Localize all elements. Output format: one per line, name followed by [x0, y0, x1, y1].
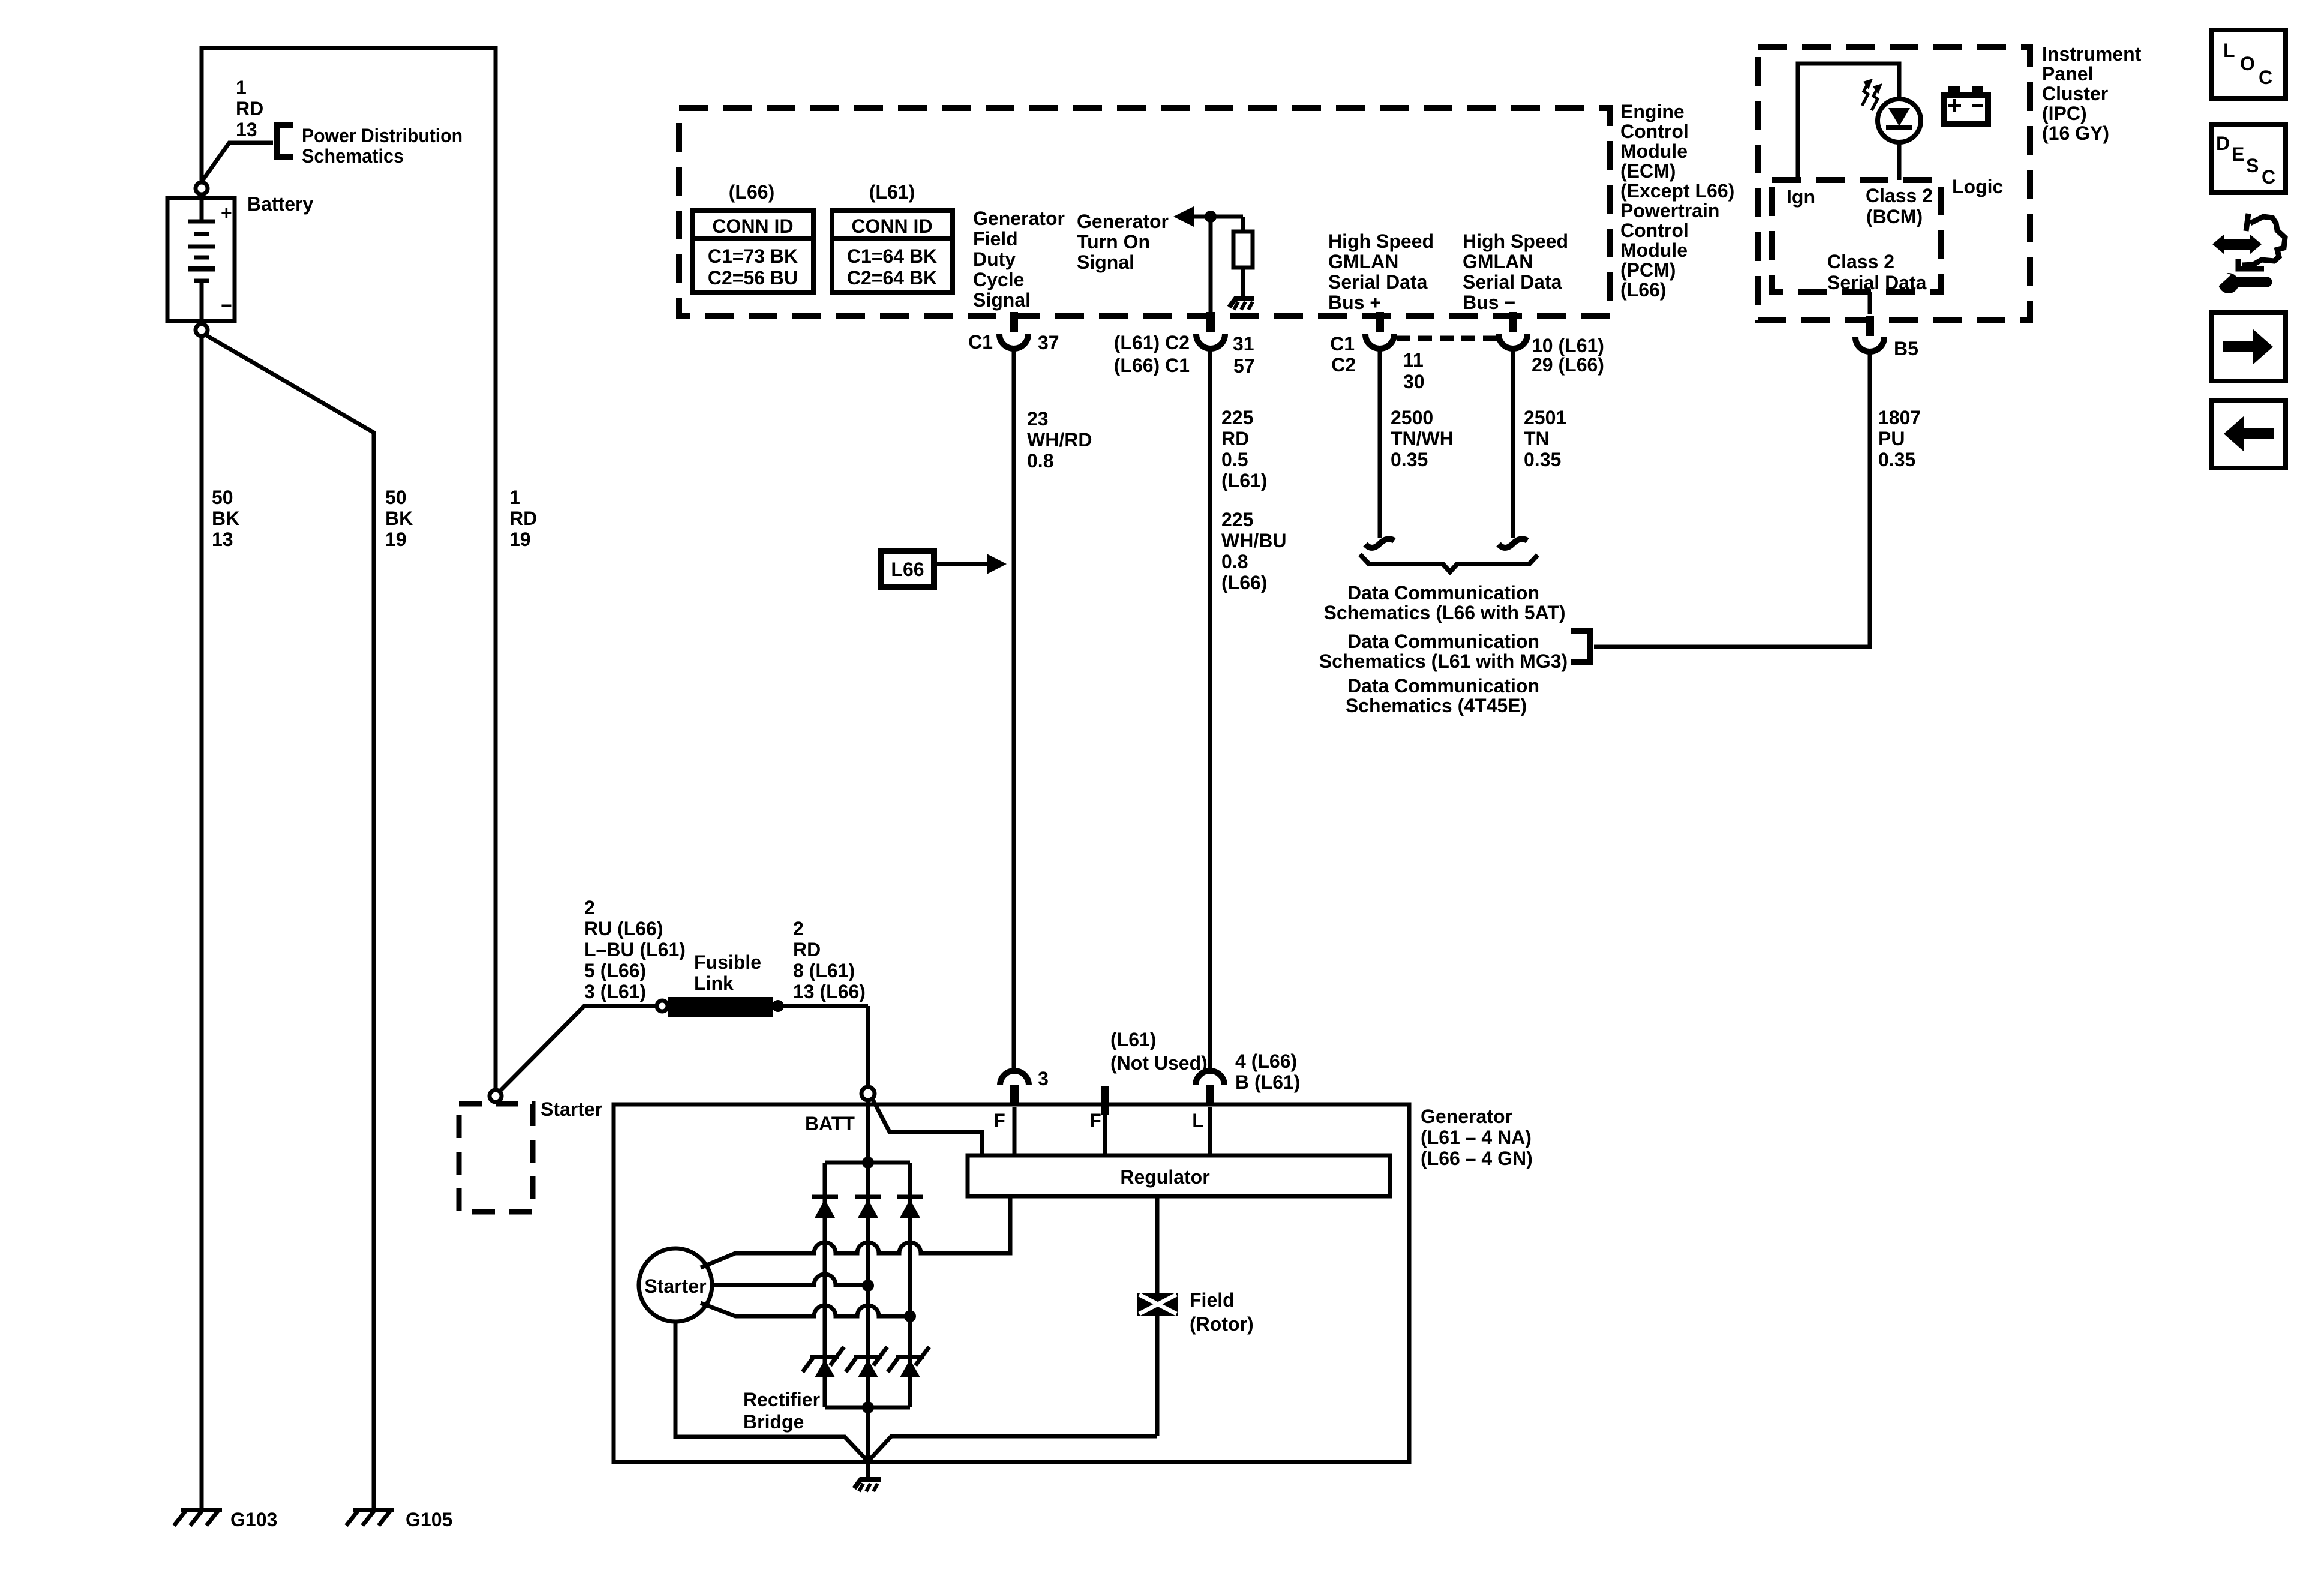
wire: BATT to rectifier bridge center [866, 1101, 870, 1407]
svg-text:19: 19 [385, 529, 407, 550]
sidebar icon: vehicle diagnostic (arrow + car + wrench) [2212, 214, 2285, 293]
svg-text:CONN ID: CONN ID [851, 215, 932, 237]
svg-text:Generator: Generator [1421, 1106, 1512, 1127]
svg-text:F: F [993, 1110, 1005, 1131]
sidebar icon: LOC box [2211, 30, 2286, 98]
stator phase wire B (middle) with hump [712, 1274, 868, 1285]
svg-text:C1: C1 [1330, 333, 1355, 355]
svg-text:(L66): (L66) [1620, 279, 1666, 301]
resistor R (internal) [1233, 232, 1253, 268]
svg-text:RU (L66): RU (L66) [584, 918, 663, 939]
bridge left leg [823, 1163, 827, 1407]
battery B+ tap wire to Power Distribution [203, 143, 273, 180]
svg-text:L66: L66 [891, 559, 924, 580]
svg-text:WH/RD: WH/RD [1027, 429, 1092, 451]
ground G103 [174, 1509, 277, 1530]
svg-text:GMLAN: GMLAN [1463, 251, 1533, 272]
stator (starter) winding circle [639, 1248, 712, 1322]
svg-text:(L61): (L61) [1221, 470, 1267, 491]
svg-text:Link: Link [694, 972, 734, 994]
svg-text:Instrument: Instrument [2042, 43, 2142, 65]
svg-text:C: C [2259, 67, 2272, 88]
node: phase C junction [904, 1310, 916, 1322]
svg-text:Schematics (L66 with 5AT): Schematics (L66 with 5AT) [1323, 602, 1565, 623]
connector table CONN ID (L61) [832, 211, 953, 292]
svg-text:(Rotor): (Rotor) [1190, 1313, 1254, 1335]
svg-text:Data Communication: Data Communication [1347, 631, 1539, 652]
wire: starter to fusible link [500, 1006, 658, 1091]
ground: generator case ground [854, 1479, 881, 1491]
svg-text:Generator: Generator [973, 208, 1065, 229]
svg-text:(ECM): (ECM) [1620, 160, 1676, 182]
svg-text:Cycle: Cycle [973, 269, 1024, 290]
wire continuation hook (bus +) [1365, 539, 1394, 548]
wire: battery feed rectangle top (1 RD circuit) [202, 48, 496, 1089]
svg-text:30: 30 [1403, 371, 1425, 392]
svg-text:RD: RD [1221, 428, 1249, 449]
svg-text:(Not Used): (Not Used) [1110, 1052, 1208, 1074]
pin C1/C2: GMLAN bus + [1330, 312, 1425, 392]
ground G105 [346, 1509, 452, 1530]
svg-text:Schematics (L61 with MG3): Schematics (L61 with MG3) [1319, 650, 1568, 672]
diode D1 [812, 1197, 838, 1218]
wire 225 RD / WH-BU (generator turn on signal) [1208, 349, 1212, 1070]
pin B5: IPC class 2 serial data [1855, 316, 1918, 359]
svg-text:1: 1 [236, 77, 247, 98]
generator box [614, 1104, 1409, 1462]
node: battery positive terminal [196, 182, 208, 194]
wire: LED cathode to BCM logic [1897, 142, 1902, 180]
ECM/PCM dashed module box [679, 108, 1610, 316]
wire: stator common to ground point [675, 1322, 868, 1461]
svg-text:Duty: Duty [973, 248, 1016, 270]
svg-text:+: + [221, 202, 232, 224]
svg-text:0.5: 0.5 [1221, 449, 1248, 470]
wire: L pin to regulator [1208, 1107, 1212, 1155]
svg-text:Data Communication: Data Communication [1347, 675, 1539, 697]
svg-text:(L61): (L61) [869, 181, 915, 203]
connector boundary dashes between GMLAN pins [1397, 336, 1499, 341]
pin F (3): generator field [993, 1068, 1049, 1131]
svg-text:F: F [1089, 1110, 1101, 1131]
svg-text:31: 31 [1233, 333, 1254, 355]
svg-text:(PCM): (PCM) [1620, 259, 1676, 281]
svg-text:C: C [2262, 166, 2275, 188]
svg-text:Battery: Battery [247, 193, 313, 215]
wire continuation hook (bus -) [1499, 539, 1527, 548]
pin C2-31 / C1-57: ECM generator turn on [1114, 312, 1255, 377]
svg-text:0.35: 0.35 [1878, 449, 1915, 470]
connector table CONN ID (L66) [693, 211, 813, 292]
svg-text:13: 13 [212, 529, 233, 550]
BCM logic dashed box [1772, 180, 1941, 292]
pin 10/29: GMLAN bus - [1499, 312, 1604, 376]
svg-text:0.35: 0.35 [1391, 449, 1428, 470]
svg-text:High Speed: High Speed [1463, 230, 1568, 252]
svg-text:Turn On: Turn On [1077, 231, 1150, 253]
svg-text:(IPC): (IPC) [2042, 103, 2087, 124]
svg-text:L: L [2223, 40, 2235, 61]
svg-text:(BCM): (BCM) [1866, 206, 1923, 227]
svg-text:TN/WH: TN/WH [1391, 428, 1454, 449]
svg-text:Serial Data: Serial Data [1328, 271, 1428, 293]
wire: BATT branch to regulator [873, 1100, 982, 1155]
indicator LED DS (charge lamp) [1878, 99, 1921, 142]
svg-text:Regulator: Regulator [1120, 1166, 1209, 1188]
wire 1807 PU 0.35 (class 2 serial data) [1594, 352, 1870, 647]
svg-text:(L66) C1: (L66) C1 [1114, 355, 1190, 376]
svg-text:0.8: 0.8 [1027, 450, 1053, 472]
arrow: generator turn on signal [1173, 206, 1194, 227]
wire: F2 pin to regulator [1103, 1107, 1107, 1155]
brace: data communication schematics [1360, 554, 1538, 572]
avalanche diode D5 [846, 1347, 887, 1377]
svg-text:B (L61): B (L61) [1235, 1071, 1300, 1093]
svg-text:Signal: Signal [1077, 251, 1134, 273]
svg-text:GMLAN: GMLAN [1328, 251, 1398, 272]
svg-text:BK: BK [212, 508, 239, 529]
svg-text:10 (L61): 10 (L61) [1532, 335, 1604, 356]
diode D2 [855, 1197, 881, 1218]
svg-text:Class 2: Class 2 [1866, 185, 1933, 206]
svg-text:PU: PU [1878, 428, 1905, 449]
svg-text:Engine: Engine [1620, 101, 1685, 122]
svg-text:BK: BK [385, 508, 413, 529]
wire: IPC internal lamp branch [1798, 64, 1899, 179]
wire: turn-on signal down from junction [1209, 217, 1213, 313]
wire: 50 BK 13 ground wire to G103 [200, 337, 204, 1510]
svg-text:Module: Module [1620, 140, 1688, 162]
wire 2501 TN 0.35 (GMLAN bus -) [1511, 349, 1515, 538]
wire: field return to ground point [868, 1436, 1157, 1461]
svg-text:Cluster: Cluster [2042, 83, 2108, 104]
svg-text:2: 2 [793, 918, 804, 939]
svg-text:(L61): (L61) [1110, 1029, 1156, 1050]
svg-text:8 (L61): 8 (L61) [793, 960, 855, 981]
svg-text:C2=56 BU: C2=56 BU [708, 267, 798, 289]
sidebar icon: DESC box [2211, 124, 2286, 193]
battery icon (IPC symbol) [1944, 86, 1988, 124]
svg-text:Bus −: Bus − [1463, 292, 1515, 313]
wire resistor to ground [1241, 268, 1245, 299]
svg-text:BATT: BATT [805, 1113, 855, 1134]
svg-text:1: 1 [509, 487, 520, 508]
svg-text:Logic: Logic [1952, 176, 2003, 197]
wire: bridge bottom to ground point [866, 1407, 870, 1480]
svg-text:CONN ID: CONN ID [712, 215, 793, 237]
svg-text:225: 225 [1221, 407, 1253, 428]
svg-text:C2=64 BK: C2=64 BK [847, 267, 937, 289]
svg-text:0.8: 0.8 [1221, 551, 1248, 572]
pin L: generator turn on [1192, 1071, 1224, 1131]
svg-text:High Speed: High Speed [1328, 230, 1434, 252]
svg-text:4 (L66): 4 (L66) [1235, 1050, 1297, 1072]
svg-text:L–BU (L61): L–BU (L61) [584, 939, 686, 960]
svg-text:13: 13 [236, 119, 257, 140]
wire: F pin to regulator [1013, 1107, 1017, 1155]
rectifier bridge bottom bar [825, 1406, 910, 1410]
svg-text:(16 GY): (16 GY) [2042, 122, 2109, 144]
svg-text:Bridge: Bridge [743, 1411, 804, 1433]
svg-text:Module: Module [1620, 239, 1688, 261]
pin F (not used) [1089, 1086, 1109, 1131]
svg-text:Control: Control [1620, 220, 1689, 241]
node: battery negative terminal [196, 324, 208, 336]
field coil (rotor) [1137, 1196, 1178, 1436]
rectifier bridge top bar [825, 1161, 910, 1165]
node: BATT terminal [861, 1087, 875, 1100]
svg-text:−: − [221, 295, 232, 316]
svg-text:Fusible: Fusible [694, 951, 761, 973]
node: junction at bridge top [862, 1157, 874, 1169]
svg-text:225: 225 [1221, 509, 1253, 530]
wire 23 WH/RD 0.8 (generator field duty cycle signal) [1012, 349, 1016, 1070]
svg-text:3: 3 [1038, 1068, 1049, 1089]
svg-text:L: L [1192, 1110, 1204, 1131]
avalanche diode D4 [803, 1347, 844, 1377]
svg-text:Control: Control [1620, 121, 1689, 142]
svg-text:Generator: Generator [1077, 211, 1169, 232]
wire: class 2 serial data inside IPC [1868, 292, 1872, 314]
svg-text:C1=73 BK: C1=73 BK [708, 245, 798, 267]
svg-text:C2: C2 [1331, 354, 1356, 376]
battery B1 [167, 196, 235, 322]
svg-text:(L66): (L66) [1221, 572, 1267, 593]
svg-text:3 (L61): 3 (L61) [584, 981, 646, 1002]
svg-text:RD: RD [509, 508, 537, 529]
svg-text:Serial Data: Serial Data [1463, 271, 1562, 293]
bracket: to data communication schematics (L61 with MG3) [1571, 631, 1590, 662]
svg-text:Signal: Signal [973, 289, 1031, 311]
IPC dashed module box [1758, 47, 2030, 320]
svg-text:S: S [2246, 155, 2259, 176]
svg-text:(L61) C2: (L61) C2 [1114, 332, 1190, 353]
svg-text:RD: RD [793, 939, 821, 960]
svg-text:50: 50 [212, 487, 233, 508]
svg-text:Rectifier: Rectifier [743, 1389, 820, 1410]
sidebar icon: next arrow box [2211, 313, 2286, 381]
svg-text:37: 37 [1038, 332, 1059, 353]
bracket: Power Distribution Schematics [277, 125, 293, 157]
svg-text:Starter: Starter [644, 1275, 706, 1297]
svg-text:Class 2: Class 2 [1827, 251, 1894, 272]
svg-text:(L66): (L66) [729, 181, 774, 203]
svg-text:23: 23 [1027, 408, 1049, 430]
svg-text:Bus +: Bus + [1328, 292, 1381, 313]
svg-text:57: 57 [1233, 355, 1255, 377]
svg-text:13 (L66): 13 (L66) [793, 981, 866, 1002]
svg-text:2: 2 [584, 897, 595, 918]
svg-text:11: 11 [1403, 349, 1424, 371]
svg-text:1807: 1807 [1878, 407, 1921, 428]
svg-text:50: 50 [385, 487, 407, 508]
svg-text:5 (L66): 5 (L66) [584, 960, 646, 981]
svg-text:Field: Field [1190, 1289, 1235, 1311]
LED emission arrows [1862, 79, 1882, 110]
bridge right leg [908, 1163, 912, 1407]
svg-text:(L61 – 4 NA): (L61 – 4 NA) [1421, 1127, 1532, 1148]
svg-text:(Except L66): (Except L66) [1620, 180, 1734, 202]
sidebar icon: back arrow box [2211, 400, 2286, 468]
svg-text:WH/BU: WH/BU [1221, 530, 1286, 551]
starter dashed box [459, 1104, 533, 1212]
svg-text:G105: G105 [406, 1509, 452, 1530]
wire to pull-up resistor [1241, 217, 1245, 232]
svg-text:RD: RD [236, 98, 263, 119]
svg-text:Field: Field [973, 228, 1018, 250]
node: phase B junction [862, 1280, 874, 1292]
svg-text:Power Distribution: Power Distribution [302, 125, 463, 146]
svg-text:Data Communication: Data Communication [1347, 582, 1539, 604]
svg-text:G103: G103 [230, 1509, 277, 1530]
L66 callout box with arrow [881, 551, 1007, 587]
wire 2500 TN/WH 0.35 (GMLAN bus +) [1378, 349, 1382, 538]
node: bridge bottom junction [862, 1401, 874, 1413]
avalanche diode D6 [888, 1347, 929, 1377]
svg-text:D: D [2216, 133, 2230, 154]
svg-text:0.35: 0.35 [1524, 449, 1561, 470]
svg-text:B5: B5 [1894, 338, 1918, 359]
diode D3 [897, 1197, 923, 1218]
svg-text:Ign: Ign [1786, 186, 1815, 208]
svg-text:Panel: Panel [2042, 63, 2093, 85]
svg-text:2501: 2501 [1524, 407, 1566, 428]
svg-text:O: O [2240, 53, 2255, 74]
svg-text:(L66 – 4 GN): (L66 – 4 GN) [1421, 1148, 1533, 1169]
stator phase wire A (top) with crossover humps [701, 1196, 1010, 1268]
pin C1-37: ECM generator field duty cycle [968, 312, 1059, 353]
svg-text:E: E [2232, 143, 2244, 165]
svg-text:C1=64 BK: C1=64 BK [847, 245, 937, 267]
svg-text:Schematics: Schematics [302, 145, 404, 167]
node: junction turn-on signal [1205, 211, 1217, 223]
svg-text:2500: 2500 [1391, 407, 1433, 428]
fusible link FL [657, 997, 868, 1017]
svg-text:Serial Data: Serial Data [1827, 272, 1927, 293]
wire: 50 BK 19 ground wire to G105 [206, 335, 374, 1510]
stator phase wire C (bottom) with humps [701, 1303, 910, 1316]
svg-text:29 (L66): 29 (L66) [1532, 354, 1604, 376]
ground: ECM internal chassis ground [1229, 298, 1254, 310]
wire: fusible link down to BATT [866, 1006, 870, 1086]
svg-text:19: 19 [509, 529, 531, 550]
svg-text:C1: C1 [968, 331, 993, 353]
svg-text:Schematics (4T45E): Schematics (4T45E) [1346, 695, 1527, 716]
node: starter battery terminal [490, 1090, 502, 1102]
svg-text:Starter: Starter [541, 1098, 602, 1120]
regulator box [968, 1155, 1390, 1196]
svg-text:TN: TN [1524, 428, 1550, 449]
svg-text:Powertrain: Powertrain [1620, 200, 1719, 221]
